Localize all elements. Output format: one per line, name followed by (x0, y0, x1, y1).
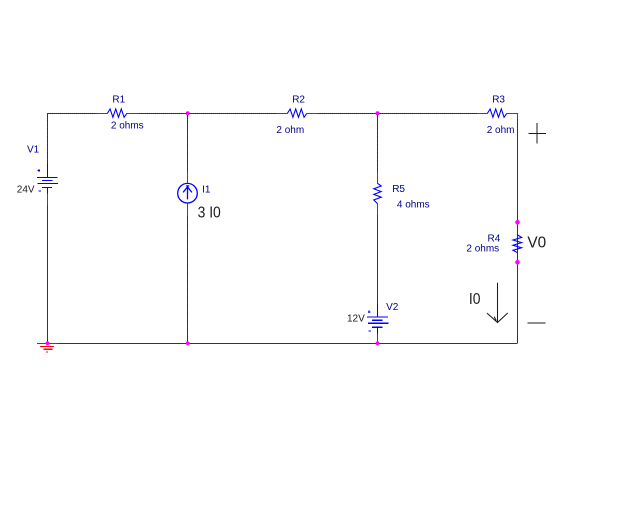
R3 zigzag body (487, 109, 506, 117)
wire left rail lower (V1 to ground corner) (47, 205, 49, 344)
junction R4 top pin (515, 220, 520, 225)
wire R5 to V2 (377, 215, 379, 304)
V2 polarity marks (368, 311, 371, 332)
svg-text:3 I0: 3 I0 (198, 205, 221, 222)
current I0 arrow (487, 283, 508, 323)
resistor R2 (276, 95, 317, 136)
svg-text:V0: V0 (527, 234, 546, 251)
ground (37, 344, 58, 353)
wire middle rail upper (node A to I1) (187, 113, 189, 172)
V2 battery plates and leads (367, 304, 388, 335)
svg-text:V2: V2 (386, 302, 399, 313)
wire top rail R1 to R2 (138, 113, 277, 115)
svg-text:I0: I0 (469, 291, 481, 308)
svg-text:2 ohm: 2 ohm (276, 125, 304, 136)
V1 battery plates and leads (37, 164, 58, 194)
svg-text:R5: R5 (392, 184, 405, 195)
I1 pin stubs (187, 172, 189, 215)
R2 zigzag body (287, 109, 306, 117)
junction R4 bottom pin (515, 260, 520, 265)
R4 zigzag body (513, 235, 522, 253)
wire middle rail lower (I1 to bottom rail) (187, 215, 189, 343)
resistor R3 (477, 95, 518, 136)
R5 pin stubs (377, 173, 379, 215)
current source I1 (178, 172, 221, 222)
plus polarity annotation for V0 (529, 123, 547, 143)
svg-text:24V: 24V (17, 185, 35, 196)
I1 circle (178, 183, 198, 203)
R1 pin leads (97, 113, 139, 115)
junction node B (top, R5 branch) (376, 111, 380, 115)
junction bottom V2 branch (376, 341, 380, 345)
svg-text:R2: R2 (292, 95, 305, 106)
svg-text:2 ohms: 2 ohms (111, 121, 144, 132)
R1 zigzag body (107, 109, 126, 117)
wire top rail left segment (V1 corner to R1) (47, 113, 97, 115)
svg-text:R1: R1 (112, 95, 125, 106)
wire bottom rail (58, 343, 518, 345)
R5 zigzag body (374, 183, 381, 203)
junction node A (top, I1 branch) (186, 111, 190, 115)
I1 arrow (183, 186, 192, 200)
wire top rail R2 to R3 (317, 113, 477, 115)
wire right rail (R3 corner through R4 to bottom corner) (517, 119, 519, 344)
junction at ground corner (46, 341, 50, 345)
svg-text:2 ohm: 2 ohm (487, 125, 515, 136)
voltage source V2 battery (347, 302, 399, 343)
svg-text:V1: V1 (27, 144, 40, 155)
svg-text:I1: I1 (202, 185, 211, 196)
voltage source V1 battery (17, 144, 58, 204)
svg-text:R3: R3 (492, 95, 505, 106)
V1 bottom pin stub (47, 194, 49, 205)
V2 bottom pin stub (377, 335, 379, 344)
svg-text:2 ohms: 2 ohms (466, 244, 499, 255)
wire left rail upper (corner to V1) (47, 113, 49, 164)
V1 polarity marks (38, 169, 41, 191)
svg-text:12V: 12V (347, 314, 365, 325)
junction bottom I1 branch (186, 341, 190, 345)
resistor R5 (374, 173, 430, 215)
resistor R4 (466, 234, 521, 255)
wire node B to R5 (377, 113, 379, 173)
minus polarity annotation for V0 (527, 322, 545, 324)
R3 pin leads (477, 114, 518, 120)
svg-text:4 ohms: 4 ohms (397, 200, 430, 211)
resistor R1 (97, 95, 144, 132)
R2 pin leads (277, 113, 318, 115)
